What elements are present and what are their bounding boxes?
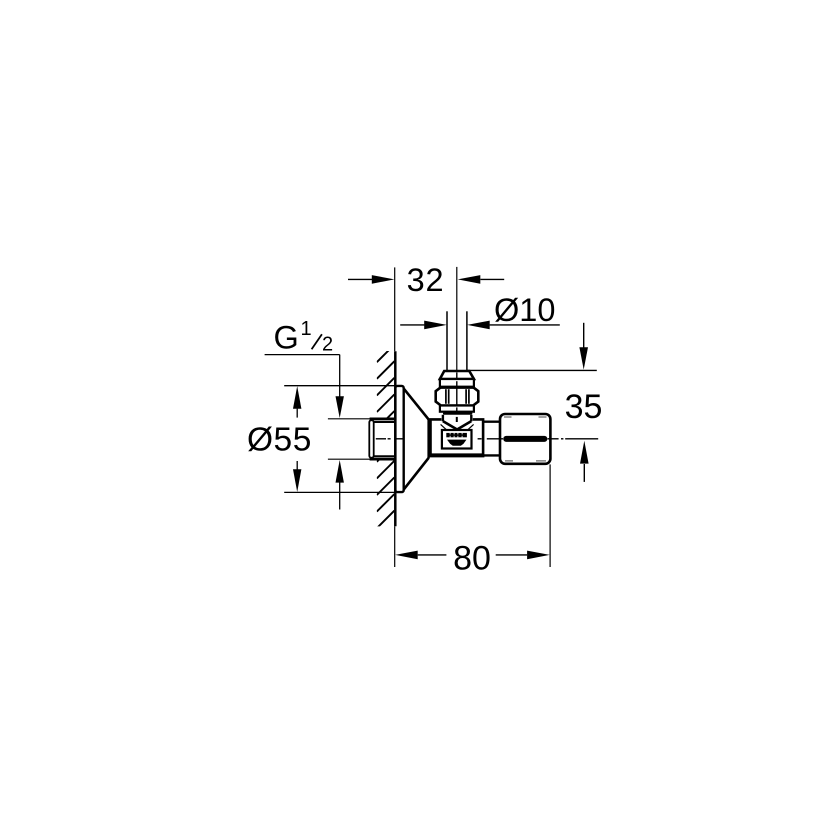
svg-text:32: 32 — [407, 262, 445, 298]
svg-text:1: 1 — [301, 318, 312, 340]
thread G1/2 crest lines — [370, 417, 395, 420]
pipe centerline / dim 32 extension — [456, 267, 458, 371]
pipe (outlet, diam 10) — [446, 311, 448, 370]
wall extension line (bottom, to dim 80) — [394, 526, 396, 567]
GROHE laurel emblem — [447, 440, 467, 446]
GROHE label box — [442, 430, 472, 449]
svg-text:G: G — [274, 320, 299, 356]
dim 35 top reference line — [467, 369, 597, 371]
dim diam10 arrowhead left — [424, 321, 447, 330]
flange cone bottom edge — [404, 458, 429, 490]
dim diam55 up arrow — [293, 386, 301, 409]
dim 80 right extension line — [549, 464, 551, 567]
dim diam55 down arrow — [293, 469, 301, 492]
dim 80 dimension line — [418, 554, 527, 556]
funnel chamfer tick right — [468, 424, 474, 430]
dim 80 arrowhead left — [395, 551, 418, 560]
inlet funnel left wall — [442, 415, 444, 422]
dim diam55 top reference line — [284, 385, 395, 387]
valve neck — [483, 421, 500, 423]
hex facet lines — [446, 389, 469, 404]
thread end cap — [369, 420, 373, 458]
dim diam10 arrowhead right — [467, 321, 490, 330]
thread G1/2 crest thin extension lines — [328, 418, 370, 420]
valve body bottom emphasis — [431, 453, 483, 456]
svg-text:80: 80 — [453, 539, 491, 577]
svg-text:2: 2 — [322, 333, 333, 355]
compression ring lower — [440, 406, 474, 412]
dim 35 upper arrow — [583, 323, 585, 348]
G 1/2 lower arrow (up) — [339, 482, 341, 509]
valve body — [431, 419, 484, 456]
G 1/2 leader line — [265, 354, 340, 356]
svg-text:Ø55: Ø55 — [247, 421, 312, 458]
handle chamfer marks top — [504, 416, 512, 418]
inlet funnel V right — [457, 421, 471, 429]
wall hatching — [377, 345, 395, 562]
dim 32 dimension line left part — [348, 278, 504, 280]
vertical centerline dashes — [456, 372, 458, 411]
compression hex nut — [436, 387, 479, 405]
dim 35 lower arrow — [583, 464, 585, 482]
flange cone top edge — [404, 389, 429, 420]
svg-text:Ø10: Ø10 — [494, 292, 555, 328]
wall extension line (top, to dim 32) — [394, 267, 396, 351]
inlet funnel V left — [443, 421, 457, 429]
dim 32 arrowhead left — [372, 275, 395, 284]
flange cone end ring — [427, 419, 429, 459]
G 1/2 leader arrowhead (down) — [336, 396, 344, 418]
handle — [500, 414, 550, 464]
compression ring upper — [440, 379, 474, 387]
svg-text:35: 35 — [565, 388, 603, 426]
horizontal centerline — [376, 438, 598, 440]
handle grip groove — [503, 436, 547, 442]
dim 80 arrowhead right — [527, 551, 550, 560]
escutcheon flange plate — [395, 386, 403, 492]
handle chamfer marks bottom — [505, 460, 513, 462]
wall face line — [394, 351, 397, 526]
funnel chamfer tick left — [441, 424, 447, 430]
thread body — [374, 421, 395, 423]
dim diam55 bottom reference line — [284, 491, 395, 493]
compression nut top cone — [440, 371, 474, 379]
hex nut top emphasis — [440, 386, 474, 389]
GROHE wordmark — [446, 433, 467, 437]
inlet funnel right wall — [470, 415, 472, 422]
dim diam10 dimension line — [400, 324, 560, 326]
dim 32 arrowhead right — [458, 275, 481, 284]
seal dark band — [443, 412, 472, 415]
